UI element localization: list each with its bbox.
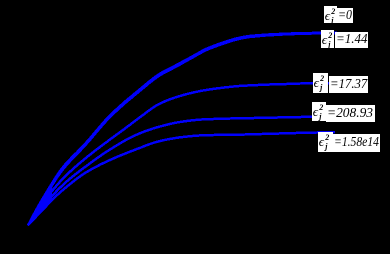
curve eps2=1.44 xyxy=(29,33,337,224)
curve eps2=1.58e14 xyxy=(29,132,335,224)
curve eps2=208.93 xyxy=(29,117,329,225)
label eps2=0 xyxy=(324,6,337,23)
label eps2=1.44 xyxy=(321,30,334,48)
solid wedge at curve convergence tip xyxy=(29,183,53,224)
label eps2=208.93 xyxy=(312,102,326,121)
label eps2=1.58e14 xyxy=(318,132,333,152)
curve eps2=17.37 xyxy=(29,83,332,225)
curve eps2=0 xyxy=(29,33,337,225)
label eps2=17.37 xyxy=(313,73,328,93)
